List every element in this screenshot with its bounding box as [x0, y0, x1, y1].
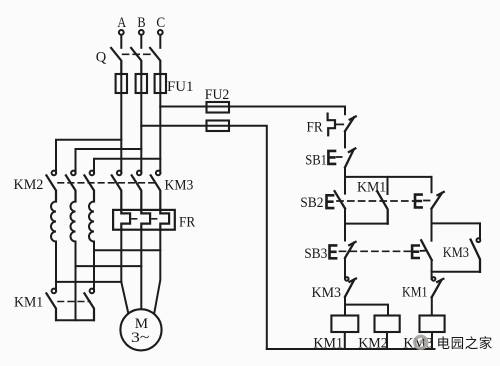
wire self-hold bottom [345, 223, 388, 225]
motor M circle [120, 309, 161, 350]
wire detour top [432, 222, 481, 224]
contactor KM2 contact 1 [46, 171, 56, 202]
wire KM2 coil to bus [386, 332, 388, 349]
svg-text:Q: Q [96, 50, 107, 66]
KM2 KM3 linkage [58, 182, 158, 184]
svg-text:B: B [137, 15, 145, 31]
FR heater element 1 [121, 210, 130, 230]
pushbutton SB3 actuator [330, 245, 337, 258]
svg-text:SB1: SB1 [305, 152, 327, 168]
svg-text:FR: FR [179, 214, 195, 230]
pushbutton SB2 NO contact [335, 191, 345, 208]
thermal relay FR box [113, 210, 175, 230]
wire split to KM2 coil [345, 305, 388, 316]
coil KM1 [331, 316, 358, 333]
fuse FU2 upper [207, 102, 230, 113]
FR heater element 2 [141, 210, 150, 230]
contact KM3 interlock NC [345, 277, 356, 297]
terminal C [158, 30, 163, 35]
wire star bar [56, 319, 94, 321]
watermark icon [415, 336, 427, 348]
wire phase B column [140, 93, 142, 173]
svg-text:SB2: SB2 [300, 195, 323, 211]
pushbutton SB2 right actuator [415, 195, 422, 208]
pushbutton SB2 NC contact right [432, 192, 444, 209]
switch Q pole 1 blade [111, 48, 121, 74]
svg-text:电园之家: 电园之家 [437, 335, 493, 351]
wire control tap upper [160, 107, 345, 115]
pushbutton SB1 NC contact [345, 148, 355, 167]
contactor KM3 contact 2 [132, 171, 142, 210]
wire SB3 down [344, 258, 346, 278]
contact KM1 interlock NC [432, 277, 444, 297]
contactor KM2 contact 3 [84, 171, 94, 202]
wire coil1 down [55, 242, 57, 291]
switch Q pole 3 blade [150, 48, 160, 74]
wire to coil split [344, 297, 346, 316]
wire jog to KM2 pole1 [56, 140, 121, 173]
SB1 actuator link [337, 156, 342, 158]
wire phase A column [120, 93, 122, 173]
svg-text:KM3: KM3 [443, 245, 469, 261]
reactor coil 2 [71, 202, 76, 242]
coil KM2 [375, 316, 400, 333]
switch Q pole 2 blade [131, 48, 141, 74]
SB2 linkage [337, 200, 414, 202]
wire control tap lower [141, 126, 266, 349]
svg-text:KM3: KM3 [165, 177, 194, 193]
svg-text:KM1: KM1 [357, 180, 386, 196]
FR NC contact [345, 116, 356, 131]
wire A stub [120, 35, 122, 48]
svg-text:FU2: FU2 [205, 87, 230, 103]
contactor KM3 contact 1 [112, 171, 122, 210]
SB3 right link [421, 250, 426, 252]
wire motor lead A [121, 230, 128, 314]
wire through fuse pole1 [120, 74, 122, 93]
svg-text:KM1: KM1 [14, 295, 43, 311]
FR operator link [337, 123, 344, 125]
terminal A [119, 30, 124, 35]
reactor coil 1 [51, 202, 56, 242]
FR heater linkage [132, 218, 137, 220]
contactor KM1 contact 2 [84, 289, 94, 321]
fuse FU1 pole2 [136, 74, 147, 93]
fuse FU2 lower [207, 121, 230, 132]
FR heater element 3 [160, 210, 169, 230]
wire B stub [140, 35, 142, 48]
contact KM3 self-hold [471, 223, 481, 271]
switch Q linkage [123, 53, 151, 55]
SB2 right link [424, 200, 430, 202]
KM1 linkage [58, 301, 90, 303]
pushbutton SB2 actuator [327, 195, 334, 208]
pushbutton SB3 NO contact right [421, 240, 432, 260]
wire KM1 coil to bus [344, 332, 346, 349]
fuse FU1 pole1 [116, 74, 127, 93]
pushbutton SB3 NC contact [345, 242, 356, 258]
contactor KM1 contact 1 [46, 289, 56, 321]
svg-text:FR: FR [307, 120, 323, 136]
terminal B [139, 30, 144, 35]
wire SB2NC down [431, 209, 433, 241]
fuse FU1 pole3 [155, 74, 166, 93]
wire SB1 down [344, 167, 346, 193]
svg-text:KM2: KM2 [14, 177, 44, 193]
wire SB3NO down [431, 260, 433, 279]
wire C stub [159, 35, 161, 48]
wire bottom bus [267, 348, 435, 350]
svg-text:A: A [117, 15, 126, 31]
wire motor lead C [154, 230, 160, 313]
wire branch top [345, 176, 432, 178]
wire coil2 down [75, 242, 77, 321]
contactor KM2 contact 2 [66, 171, 76, 202]
svg-text:KM1: KM1 [402, 284, 428, 300]
wire motor lead B [140, 230, 142, 314]
wire SB2 down [344, 208, 346, 240]
wire detour bottom [432, 271, 481, 273]
wire coil3 down [93, 242, 95, 291]
coil KM3 [420, 316, 445, 333]
wire KM3 coil to bus [431, 332, 433, 349]
wire tap coil2 to phase B [76, 265, 142, 267]
reactor coil 3 [89, 202, 94, 242]
wire through fuse pole2 [140, 74, 142, 93]
wire jog to KM2 pole2 [76, 149, 142, 173]
svg-text:3~: 3~ [131, 330, 150, 346]
pushbutton SB3 right actuator [412, 246, 419, 259]
wire jog to KM2 pole3 [94, 159, 160, 173]
svg-text:C: C [156, 15, 165, 31]
wire through fuse pole3 [159, 74, 161, 93]
svg-text:KM3: KM3 [312, 285, 342, 301]
wire FR to SB1 [344, 131, 346, 147]
svg-text:FU1: FU1 [167, 79, 194, 95]
wire tap coil1 to phase A [56, 281, 121, 283]
contactor KM3 contact 3 [151, 171, 161, 210]
contact KM1 aux NO [377, 177, 388, 224]
pushbutton SB1 actuator [328, 151, 335, 164]
wire right branch down [431, 177, 433, 192]
wire to KM3 coil [431, 297, 433, 315]
SB3 linkage [340, 250, 411, 252]
wire tap coil3 to phase C [94, 249, 160, 251]
wire phase C column [159, 93, 161, 173]
FR operator [328, 114, 335, 136]
svg-text:SB3: SB3 [304, 246, 327, 262]
